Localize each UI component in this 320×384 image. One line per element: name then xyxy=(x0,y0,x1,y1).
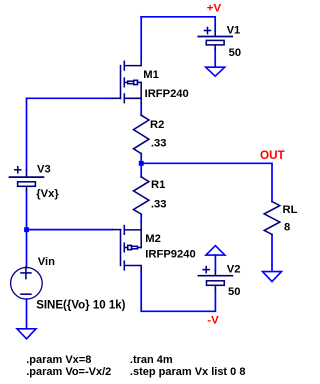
svg-text:{Vx}: {Vx} xyxy=(36,188,59,200)
svg-text:.tran 4m: .tran 4m xyxy=(130,354,173,366)
svg-text:IRFP9240: IRFP9240 xyxy=(145,249,195,261)
svg-text:.33: .33 xyxy=(151,138,167,150)
svg-text:M2: M2 xyxy=(145,233,161,245)
svg-text:.param Vx=8: .param Vx=8 xyxy=(26,354,91,366)
svg-text:R1: R1 xyxy=(151,179,165,191)
svg-text:V3: V3 xyxy=(37,164,51,176)
svg-text:RL: RL xyxy=(283,204,298,216)
svg-text:.33: .33 xyxy=(151,199,167,211)
svg-text:.step param Vx list 0 8: .step param Vx list 0 8 xyxy=(130,366,246,378)
svg-text:8: 8 xyxy=(284,222,290,234)
svg-text:Vin: Vin xyxy=(38,256,55,268)
svg-text:-V: -V xyxy=(207,315,219,327)
svg-text:50: 50 xyxy=(229,47,241,59)
svg-text:50: 50 xyxy=(228,286,240,298)
svg-text:.param Vo=-Vx/2: .param Vo=-Vx/2 xyxy=(26,366,111,378)
svg-text:V2: V2 xyxy=(227,264,241,276)
svg-text:V1: V1 xyxy=(227,25,241,37)
svg-text:SINE({Vo} 10 1k): SINE({Vo} 10 1k) xyxy=(36,299,125,311)
svg-text:M1: M1 xyxy=(143,69,159,81)
svg-text:R2: R2 xyxy=(150,119,164,131)
svg-text:+V: +V xyxy=(207,3,222,15)
svg-text:IRFP240: IRFP240 xyxy=(145,88,189,100)
svg-text:OUT: OUT xyxy=(260,149,286,162)
